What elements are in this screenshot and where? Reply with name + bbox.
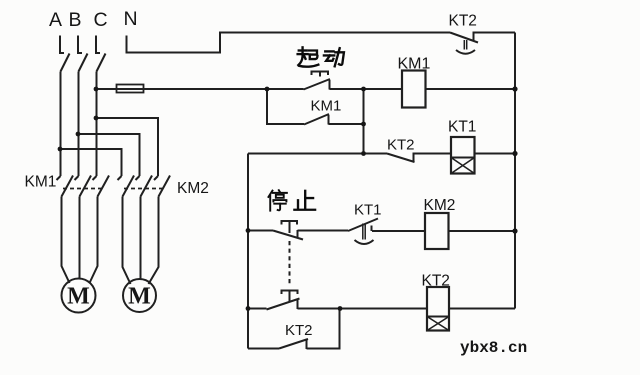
wire bottom row to KT2 coil [298, 308, 428, 310]
switch QS pole A [60, 36, 70, 72]
wire top right to rail [474, 32, 516, 34]
contact KM2 pole 3 [154, 176, 170, 197]
switch QS pole B [78, 36, 88, 72]
coil KT1 (time relay) [451, 137, 475, 174]
svg-text:KM1: KM1 [398, 56, 431, 73]
svg-text:KT2: KT2 [285, 322, 313, 339]
svg-text:M: M [67, 284, 90, 310]
contact KT2 top (NC time-delay) [450, 32, 478, 54]
label stop 停止 [268, 190, 315, 210]
motor M1 [62, 279, 96, 313]
wire phase B down [78, 72, 80, 177]
pushbutton stop (NC) [273, 221, 303, 240]
wire KM1 self-hold branch down [267, 89, 304, 124]
svg-text:KT2: KT2 [422, 273, 450, 290]
contact KM2 pole 2 [136, 176, 153, 197]
contact KM1 self-hold (NO) [304, 114, 329, 125]
wire KT1 row left [248, 153, 387, 155]
wire KM1 coil to right rail [426, 88, 516, 90]
coil KT2 (time relay) [427, 287, 449, 331]
wire motor M2 leads [123, 197, 159, 285]
svg-text:KM2: KM2 [177, 180, 209, 197]
wire branch C to KM2 [96, 118, 158, 176]
wire phase C down [96, 72, 98, 177]
label start 起动 [298, 47, 344, 66]
wire branch B to KM2 [78, 134, 140, 176]
svg-text:B: B [69, 9, 82, 31]
wire KT1 contact to KM2 coil [372, 230, 425, 232]
wire linkage dashed stop to lower contact [289, 241, 291, 286]
svg-text:M: M [128, 284, 151, 310]
fuse FU [117, 85, 144, 93]
svg-text:A: A [49, 9, 62, 31]
contact linked (NO) bottom row [267, 291, 300, 310]
svg-text:KT1: KT1 [448, 119, 476, 136]
wire KT2 coil to rail corner [449, 308, 515, 310]
wire right rail [514, 33, 516, 309]
wire KM2 coil to rail [449, 230, 516, 232]
svg-text:N: N [124, 8, 138, 30]
contact KT2 self-hold (NO) [279, 339, 308, 349]
svg-text:KT1: KT1 [354, 202, 382, 219]
wire branch A to KM2 [60, 149, 122, 176]
wire phase A down [60, 72, 62, 177]
contact KM2 pole 1 [118, 176, 135, 197]
svg-text:KM1: KM1 [25, 174, 57, 191]
svg-text:KT2: KT2 [449, 13, 477, 30]
wire KT1 coil to rail [475, 153, 516, 155]
linkage KM2 dashed [124, 188, 164, 190]
wire start button to KM1 coil [330, 88, 403, 90]
svg-text:KT2: KT2 [387, 137, 415, 154]
wire N drop and top run to KT2 contact [127, 33, 451, 53]
contact KM1 pole 2 [75, 176, 92, 197]
linkage KM1 dashed [63, 188, 102, 190]
wire left rail [247, 154, 249, 349]
svg-text:KM2: KM2 [424, 197, 456, 214]
coil KM2 [425, 213, 449, 249]
pushbutton start (NO) [304, 72, 331, 90]
wire bottom row left [248, 308, 267, 310]
switch QS pole C [96, 36, 106, 72]
contact KT2 (NC) row KT1 [387, 153, 415, 163]
svg-text:C: C [94, 9, 108, 31]
contact KM1 pole 3 [93, 176, 110, 197]
contact KT1 (NC time-delay) [348, 219, 378, 245]
wire KT2 self-hold branch [248, 348, 279, 350]
wire stop row left [248, 230, 273, 232]
wire motor M1 leads [62, 197, 98, 284]
wire riser x363 [363, 89, 365, 154]
contact KM1 pole 1 [57, 176, 74, 197]
wire KM1 contact to riser [329, 123, 364, 125]
wire KT2 self-hold up to row [307, 309, 340, 349]
coil KM1 [402, 71, 426, 108]
svg-text:KM1: KM1 [311, 98, 342, 115]
svg-text:ybx8.cn: ybx8.cn [460, 339, 527, 357]
wire stop to KT1 contact [298, 230, 349, 232]
wire KT2 contact to KT1 coil [414, 153, 452, 155]
motor M2 [123, 279, 156, 312]
wire main control row y89 [96, 88, 304, 90]
